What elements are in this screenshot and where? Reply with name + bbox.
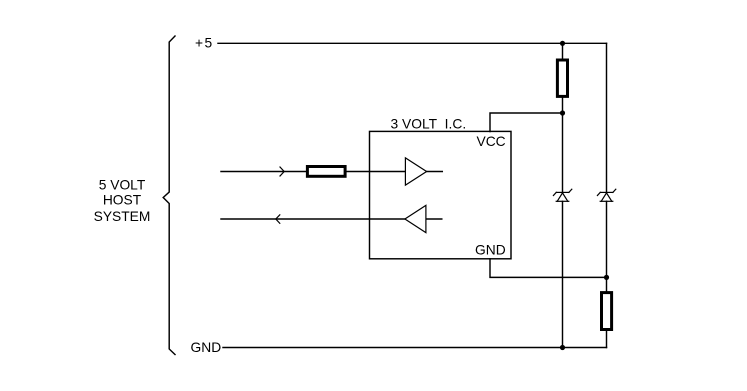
svg-text:3 VOLT I.C.: 3 VOLT I.C. (391, 116, 467, 131)
svg-text:GND: GND (475, 243, 506, 258)
svg-text:VCC: VCC (477, 134, 506, 149)
svg-text:SYSTEM: SYSTEM (94, 209, 151, 224)
svg-text:5 VOLT: 5 VOLT (99, 177, 146, 192)
svg-text:+5: +5 (195, 36, 214, 51)
svg-text:HOST: HOST (103, 193, 142, 208)
svg-text:GND: GND (191, 340, 222, 355)
